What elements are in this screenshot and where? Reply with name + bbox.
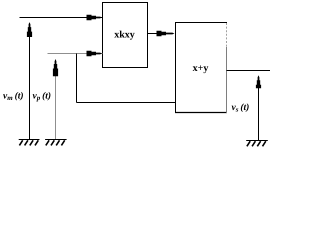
- wire: multiplier output to adder: [148, 33, 160, 35]
- svg-text:xkxy: xkxy: [114, 30, 135, 41]
- wire: branch from input 2 down: [76, 54, 78, 103]
- adder left edge: [175, 23, 177, 114]
- multiplier block U1 (kxy): [103, 3, 148, 68]
- voltage arrow v_p(t): [53, 59, 58, 140]
- wire: input 2 to multiplier (gray): [48, 53, 103, 55]
- ground G3: [246, 141, 268, 147]
- svg-text:x+y: x+y: [193, 63, 209, 74]
- adder bottom edge: [175, 112, 227, 114]
- adder top edge: [175, 22, 227, 24]
- wire: branch to adder lower input: [77, 102, 176, 104]
- voltage arrow v_m(t): [27, 22, 32, 139]
- adder block U2 (x+y): [175, 23, 227, 114]
- ground G1: [19, 140, 40, 146]
- wire: input 1 to multiplier: [20, 17, 103, 19]
- adder right edge (faded, dashed at top): [226, 23, 228, 47]
- svg-text:vp (t): vp (t): [33, 92, 52, 103]
- svg-text:vs (t): vs (t): [232, 103, 250, 114]
- voltage arrow v_s(t): [256, 75, 261, 140]
- svg-text:vm (t): vm (t): [3, 92, 24, 103]
- arrowhead into adder input 1: [157, 31, 175, 37]
- arrowhead into multiplier input 2: [87, 51, 103, 57]
- wire: adder output: [227, 70, 271, 72]
- ground G2: [45, 140, 67, 146]
- arrowhead into multiplier input 1: [87, 15, 103, 21]
